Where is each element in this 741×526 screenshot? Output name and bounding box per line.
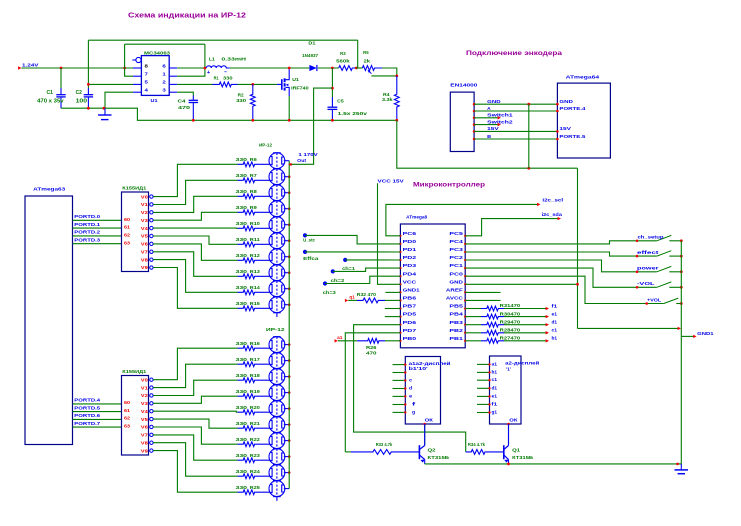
output bubble V2 decoder D1 K155ID1 (150, 211, 153, 214)
svg-text:R9: R9 (250, 205, 258, 210)
svg-text:330: 330 (236, 341, 248, 346)
junction drain node (288, 67, 291, 70)
wire display1 pin 1 (393, 364, 406, 366)
pin dot encoder 15V (473, 130, 476, 133)
svg-text:PB0: PB0 (403, 336, 417, 341)
svg-text:330: 330 (236, 157, 248, 162)
svg-text:R22: R22 (250, 437, 261, 442)
node Effca (303, 250, 307, 254)
output bubble V8 decoder D1 K155ID1 (150, 258, 153, 261)
transistor Q2 KT315 (418, 445, 420, 459)
svg-text:330: 330 (236, 437, 248, 442)
junction ground stem (103, 107, 106, 110)
pin stub 1 (169, 75, 177, 77)
svg-text:62: 62 (124, 416, 131, 421)
svg-text:R21: R21 (250, 421, 261, 426)
pin dot display1 5 (404, 395, 406, 397)
svg-text:PC2: PC2 (449, 255, 463, 260)
display U3 box (405, 357, 440, 425)
pin dot ATmega64 PORTE.5 (556, 138, 559, 141)
wire VCC rail (378, 183, 401, 284)
svg-text:V5: V5 (141, 234, 149, 239)
svg-text:ch_setup: ch_setup (638, 235, 664, 240)
svg-text:V0: V0 (141, 377, 149, 382)
pin dot encoder Switch2 (473, 123, 476, 126)
wire 1.24V rail to U1 pin8 (22, 67, 134, 69)
svg-text:PORTD.5: PORTD.5 (74, 405, 100, 410)
svg-text:330: 330 (236, 301, 248, 306)
op-amp U1 MC34063 box (141, 56, 169, 96)
svg-text:330: 330 (236, 237, 248, 242)
pin dot display1 7 (404, 411, 406, 413)
resistor R16 330 (238, 346, 271, 351)
svg-text:КТ315Б: КТ315Б (428, 455, 450, 460)
wire PD7 to R33 (345, 333, 400, 452)
junction tube 11 bus (288, 343, 291, 346)
capacitor C5 (331, 97, 333, 107)
tube lamp HL1 IR-12 (269, 153, 285, 169)
junction 170V bus tap (288, 163, 291, 166)
wire display1 pin 5 (393, 395, 406, 397)
wire encoder 15V (474, 130, 557, 132)
svg-text:15V: 15V (487, 126, 500, 131)
junction wiper (395, 75, 398, 78)
svg-text:R16: R16 (250, 341, 261, 346)
wire Q1 collector (508, 424, 510, 446)
wire V2 to R18 (153, 380, 237, 395)
transistor U1 gate bar (281, 79, 283, 90)
svg-text:GND: GND (487, 99, 501, 104)
junction tube 16 bus (288, 423, 291, 426)
wire PC0 to SW5 (465, 276, 664, 303)
svg-text:q1: q1 (349, 294, 355, 299)
svg-text:Out: Out (297, 158, 307, 163)
wire PORTD.5 (73, 411, 122, 413)
junction tube 4 bus (288, 207, 291, 210)
resistor R23 330 (238, 458, 271, 463)
wire ch3 to PD4 (325, 276, 400, 283)
wire L1 to drain node (230, 67, 310, 69)
output bubble V8 decoder D2 K155ID1 (150, 441, 153, 444)
junction L1 left (204, 67, 207, 70)
transistor U1 gate lead (277, 83, 281, 85)
wire R27 lead from PB1 (465, 340, 481, 342)
pin dot PD1 (399, 251, 401, 253)
output bubble V5 decoder D1 K155ID1 (150, 234, 153, 237)
junction SW2 rail (680, 255, 683, 258)
wire pin2 to R1 (177, 83, 212, 85)
inverter bubble on U1 (132, 59, 135, 61)
pin dot ATmega64 GND (556, 103, 559, 106)
junction SW3 rail (680, 270, 683, 273)
svg-text:PORTE.5: PORTE.5 (559, 134, 586, 139)
wire R5 to R4 top (382, 68, 397, 76)
wire R29 lead from PB3 (465, 324, 481, 326)
pin dot PD7 (399, 332, 401, 334)
wire V9 to R15 (153, 268, 237, 309)
svg-text:470: 470 (178, 105, 191, 110)
wire R31 lead from PB5 (465, 308, 481, 310)
pin stub 2 (169, 83, 177, 85)
svg-text:5: 5 (145, 80, 149, 86)
switch SW5 +VOL (664, 298, 679, 303)
svg-text:'1': '1' (506, 367, 511, 372)
svg-text:R12: R12 (250, 253, 261, 258)
wire pin1 to node (177, 44, 205, 76)
svg-text:Switch1: Switch1 (487, 113, 513, 118)
node net f1 (546, 307, 549, 310)
mcu ATmega8 box (400, 224, 465, 348)
svg-text:R8: R8 (250, 189, 258, 194)
svg-text:V4: V4 (141, 409, 149, 414)
svg-text:V0: V0 (141, 194, 149, 199)
svg-text:R18: R18 (250, 373, 261, 378)
svg-text:U_stc: U_stc (303, 237, 315, 242)
resistor R13 330 (238, 274, 271, 279)
svg-text:-VOL: -VOL (637, 281, 655, 286)
resistor R31 (481, 306, 504, 311)
pin dot ATmega64 15V (556, 130, 559, 133)
wire Q2 emitter (424, 460, 426, 464)
tube lamp HL3 IR-12 (269, 185, 285, 201)
svg-text:d1: d1 (492, 385, 498, 390)
svg-text:V3: V3 (141, 401, 149, 406)
node Switch1 end (498, 116, 501, 119)
svg-text:e1: e1 (492, 393, 498, 398)
resistor R4 (394, 76, 399, 120)
node i2c_scl flag (537, 203, 540, 206)
svg-text:R25: R25 (250, 485, 261, 490)
wire pin3 to C4 (177, 92, 193, 95)
resistor R3 (339, 66, 357, 71)
svg-text:Q2: Q2 (428, 448, 437, 453)
svg-text:PD5: PD5 (403, 312, 417, 317)
svg-text:330: 330 (236, 373, 248, 378)
wire Q2 collector (424, 424, 426, 446)
svg-text:V3: V3 (141, 218, 149, 223)
svg-text:b1: b1 (552, 336, 558, 341)
svg-text:L1: L1 (209, 57, 215, 62)
wire V2 to R8 (153, 196, 237, 212)
wire emitter gnd rail (425, 463, 682, 465)
pin dot PB1 (464, 340, 466, 342)
svg-text:PORTD.4: PORTD.4 (74, 398, 100, 403)
wire encoder GND (474, 103, 557, 105)
resistor R29 (481, 322, 504, 327)
ic ATmega64 box (557, 83, 610, 158)
svg-text:330: 330 (236, 253, 248, 258)
tube lamp HL10 IR-12 (269, 297, 285, 313)
wire V6 to R12 (153, 244, 237, 260)
svg-text:-: - (224, 69, 228, 75)
svg-text:PB6: PB6 (403, 296, 417, 301)
svg-text:PD0: PD0 (403, 239, 417, 244)
pin dot ATmega64 PORTE.4 (556, 110, 559, 113)
display U4 box (490, 356, 522, 424)
wire ch2 to PD3 (333, 268, 401, 271)
junction C5 top node (331, 67, 334, 70)
resistor R34 (466, 450, 504, 455)
node ch1 (343, 258, 347, 262)
resistor R12 330 (238, 258, 271, 263)
wire AREF stub (465, 291, 500, 293)
svg-text:2: 2 (162, 80, 166, 86)
wire a1 to R26 (338, 340, 357, 342)
wire PORTD.0 (73, 219, 122, 221)
tube lamp HL15 IR-12 (269, 401, 285, 417)
svg-text:PD7: PD7 (403, 328, 417, 333)
pin dot AVCC (464, 299, 466, 301)
wire 170V branch (289, 88, 332, 164)
svg-text:+: + (207, 70, 211, 76)
svg-text:V2: V2 (141, 393, 149, 398)
svg-text:Switch2: Switch2 (487, 119, 513, 124)
wire V3 to R9 (153, 212, 237, 220)
wire gnd center vertical (577, 168, 579, 328)
pin dot display1 1 (404, 363, 406, 365)
wire PORTD.7 (73, 426, 122, 428)
tube lamp HL8 IR-12 (269, 265, 285, 281)
svg-text:IRF740: IRF740 (291, 85, 309, 90)
wire gnd run down-right (397, 120, 578, 168)
junction tube 10 bus (288, 303, 291, 306)
svg-text:g: g (412, 409, 415, 414)
wire V1 to R17 (153, 364, 237, 387)
svg-text:i2c_sda: i2c_sda (542, 212, 563, 217)
junction Q1 emitter rail (507, 463, 510, 466)
wire source to rail (288, 96, 290, 120)
junction tube 5 bus (288, 223, 291, 226)
wire PC4 to SW1 (465, 241, 657, 244)
wire V1 to R7 (153, 180, 237, 204)
tube lamp HL6 IR-12 (269, 233, 285, 249)
junction tube 2 bus (288, 175, 291, 178)
svg-text:R5: R5 (363, 50, 369, 55)
wire display2 pin f1 (477, 403, 490, 405)
svg-text:GND: GND (559, 99, 573, 104)
svg-text:V8: V8 (141, 440, 149, 445)
svg-text:d: d (409, 386, 412, 391)
wire display1 pin 4 (393, 388, 406, 390)
pin dot PD4 (399, 275, 401, 277)
output bubble V9 decoder D2 K155ID1 (150, 449, 153, 452)
output bubble V7 decoder D2 K155ID1 (150, 433, 153, 436)
svg-text:U1: U1 (292, 77, 299, 82)
wire PC3 to SW2 (465, 252, 657, 256)
wire display1 pin 6 (393, 404, 406, 406)
wire C5 vertical (331, 68, 333, 97)
resistor R10 330 (238, 226, 271, 231)
output bubble V0 decoder D1 K155ID1 (150, 195, 153, 198)
svg-text:PB3: PB3 (449, 320, 463, 325)
svg-text:R7: R7 (250, 173, 258, 178)
node GND1 flag (693, 335, 696, 338)
svg-text:330: 330 (236, 421, 248, 426)
wire pin6 to L1 (177, 67, 206, 69)
node net e1 (546, 315, 549, 318)
pin dot PC3 (464, 251, 466, 253)
svg-text:PORTD.1: PORTD.1 (74, 222, 100, 227)
wire V4 to R20 (153, 411, 237, 412)
junction tube 3 bus (288, 191, 291, 194)
node i2c_sda flag (558, 217, 561, 220)
svg-text:R3: R3 (340, 51, 346, 56)
wire R27 to net b1 (504, 340, 548, 342)
resistor R18 330 (238, 378, 271, 383)
wire display1 pin 7 (393, 411, 406, 413)
svg-text:62: 62 (124, 233, 131, 238)
svg-text:63: 63 (124, 424, 131, 429)
wire D1 cathode to node (318, 67, 339, 69)
output bubble V4 decoder D1 K155ID1 (150, 226, 153, 229)
resistor R27 (481, 338, 504, 343)
svg-text:ОК: ОК (509, 418, 517, 423)
svg-text:A: A (487, 106, 491, 111)
junction tube 17 bus (288, 439, 291, 442)
junction R4 bottom (395, 119, 398, 122)
wire display1 pin 2 (393, 372, 406, 374)
wire R28 to net c1 (504, 332, 548, 334)
node Switch2 end (498, 123, 501, 126)
output bubble V6 decoder D2 K155ID1 (150, 425, 153, 428)
junction SW5 wire (645, 302, 648, 305)
tube lamp HL5 IR-12 (269, 217, 285, 233)
wire PORTD.3 (73, 243, 122, 245)
resistor R25 330 (238, 490, 271, 495)
svg-text:Подключение энкодера: Подключение энкодера (466, 50, 562, 57)
tube lamp HL9 IR-12 (269, 281, 285, 297)
svg-text:power: power (637, 266, 659, 271)
wire top feedback y40 (88, 39, 357, 41)
wire top y44 pin7 to L1 node (125, 43, 205, 45)
wire C1 top lead (60, 68, 62, 88)
svg-text:PORTE.4: PORTE.4 (559, 106, 586, 111)
wire encoder B to PORTE.5 (474, 138, 557, 140)
wire vertical x125 pin7 (125, 44, 133, 76)
inductor L1 (206, 66, 230, 68)
pin dot GND (464, 283, 466, 285)
resistor R6 330 (238, 162, 271, 167)
resistor R11 330 (238, 242, 271, 247)
pin dot PB2 (464, 332, 466, 334)
wire PD6 to R34 (354, 325, 466, 452)
svg-text:R29470: R29470 (500, 319, 521, 324)
svg-text:PB4: PB4 (449, 312, 463, 317)
tube stem group2 (276, 497, 278, 501)
junction tube 13 bus (288, 375, 291, 378)
resistor R2 (250, 84, 255, 120)
wire feedback vertical (357, 40, 359, 68)
wire PC1 to SW4 (465, 268, 657, 287)
svg-text:ch=3: ch=3 (323, 290, 336, 295)
wire R3 to R5 (356, 67, 362, 69)
wire V5 to R11 (153, 236, 237, 244)
tube stem group1 (276, 313, 278, 317)
wire display1 pin 3 (393, 379, 406, 381)
resistor R28 (481, 330, 504, 335)
svg-text:61: 61 (124, 225, 131, 230)
svg-text:R24: R24 (250, 469, 261, 474)
tube lamp HL11 IR-12 (269, 337, 285, 353)
wire PC2 to SW3 (465, 260, 657, 272)
svg-text:V7: V7 (141, 433, 149, 438)
svg-text:V6: V6 (141, 242, 149, 247)
pin stub 3 (169, 91, 177, 93)
svg-text:c1: c1 (552, 328, 558, 333)
switch SW4 -VOL (657, 282, 672, 287)
svg-text:ИР-12: ИР-12 (266, 327, 285, 332)
pin dot PC2 (464, 259, 466, 261)
svg-text:3: 3 (162, 88, 166, 94)
svg-text:i2c_scl: i2c_scl (542, 197, 563, 202)
svg-text:1.24V: 1.24V (22, 63, 40, 68)
pin dot PB4 (464, 315, 466, 317)
junction rail corner (676, 463, 679, 466)
svg-text:R26: R26 (366, 345, 377, 350)
svg-text:8: 8 (145, 63, 149, 69)
svg-text:PC0: PC0 (449, 271, 463, 276)
svg-text:КТ315Б: КТ315Б (512, 455, 534, 460)
resistor R14 330 (238, 290, 271, 295)
pin dot VCC (399, 283, 401, 285)
svg-text:C5: C5 (337, 99, 344, 104)
svg-text:1: 1 (162, 72, 166, 78)
wire PC5 to i2c_sda (465, 219, 559, 236)
diode D1 1N4937 (309, 65, 316, 71)
svg-text:R2: R2 (238, 92, 244, 97)
junction C4 bottom (192, 119, 195, 122)
wire R26 to PB0 (385, 340, 400, 342)
ground PSU (104, 108, 106, 115)
node net c1 (546, 331, 549, 334)
wire V6 to R22 (153, 427, 237, 444)
svg-text:V4: V4 (141, 226, 149, 231)
svg-text:2k: 2k (364, 58, 371, 63)
pin dot display2 f1 (488, 403, 490, 405)
svg-text:330: 330 (236, 269, 248, 274)
output bubble V1 decoder D1 K155ID1 (150, 203, 153, 206)
svg-text:330: 330 (236, 189, 248, 194)
svg-text:a1: a1 (337, 335, 343, 340)
pin dot display2 a1 (488, 363, 490, 365)
junction tube 14 bus (288, 391, 291, 394)
resistor R8 330 (238, 194, 271, 199)
svg-text:PC1: PC1 (449, 263, 463, 268)
svg-text:C4: C4 (178, 98, 187, 103)
svg-text:330: 330 (236, 173, 248, 178)
tube lamp HL13 IR-12 (269, 369, 285, 385)
svg-text:R30470: R30470 (500, 311, 521, 316)
junction mcu GND (576, 283, 579, 286)
pin dot display2 c1 (488, 379, 490, 381)
svg-text:К155ИД1: К155ИД1 (122, 186, 147, 191)
output bubble V3 decoder D2 K155ID1 (150, 402, 153, 405)
pin dot PC1 (464, 267, 466, 269)
wire encoder A to PORTE.4 (474, 110, 557, 112)
node net b1 (546, 339, 549, 342)
tube lamp HL2 IR-12 (269, 169, 285, 185)
wire PC6 to i2c_scl (386, 204, 539, 235)
wire PSU bottom rail (61, 108, 397, 120)
pin dot display1 3 (404, 379, 406, 381)
junction R2 bottom (251, 119, 254, 122)
wire V7 to R23 (153, 435, 237, 460)
wire display2 pin a1 (477, 363, 490, 365)
svg-text:Q1: Q1 (512, 448, 521, 453)
tube lamp HL18 IR-12 (269, 449, 285, 465)
svg-text:GND1: GND1 (403, 287, 421, 292)
pin dot PD6 (399, 323, 401, 325)
